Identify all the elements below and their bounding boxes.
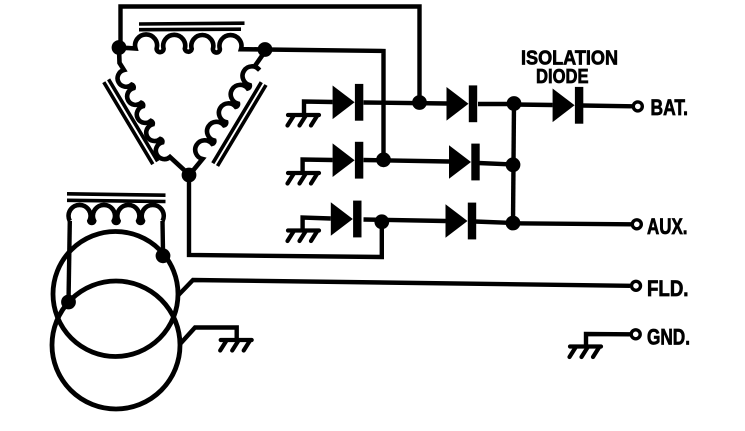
stator coil delta left side	[118, 48, 189, 175]
ground rotor	[220, 340, 252, 351]
diode D4 row 1	[447, 85, 478, 122]
junction row 2 phase B	[376, 152, 391, 167]
wire row 1 diode to diode	[364, 103, 448, 104]
diode D6 row 3	[446, 203, 477, 240]
wire FLD lead	[179, 280, 631, 295]
junction bus row 3	[506, 216, 521, 231]
core lines above delta top side	[139, 23, 245, 30]
stator coil delta top side	[119, 34, 265, 52]
junction row 3 phase C	[374, 214, 389, 229]
terminal GND	[631, 330, 640, 339]
node delta top-left vertex	[112, 40, 127, 55]
stator coil delta right side	[191, 52, 265, 174]
rotor circle upper	[53, 232, 178, 357]
diode D3 row 3	[331, 201, 362, 238]
svg-text:FLD.: FLD.	[647, 276, 689, 301]
rotor field coil	[69, 205, 164, 223]
ground row 3	[288, 231, 320, 242]
svg-text:GND.: GND.	[647, 324, 690, 349]
svg-text:BAT.: BAT.	[651, 95, 689, 120]
isolation diode	[553, 87, 584, 124]
wire top rail from delta top-left vertex to rectifier row 1	[121, 7, 420, 103]
core lines left of delta left side	[104, 79, 158, 164]
node delta top-right vertex	[258, 42, 273, 57]
ground row 1	[288, 115, 320, 126]
bus vertical joining rows	[513, 103, 514, 223]
terminal FLD	[632, 281, 641, 290]
diode D2 row 2	[333, 142, 364, 179]
wire row 2 diode to diode	[364, 160, 450, 162]
wire loop from delta bottom vertex to row 3	[189, 175, 382, 257]
wire row 2 diode to bus	[478, 163, 513, 165]
ground row 2	[288, 173, 320, 184]
core lines right of delta right side	[213, 82, 266, 166]
wire row 3 diode to diode	[364, 220, 446, 222]
wire row 1 bus to isolation diode to BAT	[514, 105, 633, 107]
node rotor left brush	[61, 295, 76, 310]
wire field coil left lead	[69, 221, 70, 302]
wire row 2 ground to diode	[303, 160, 333, 174]
wire row 3 diode to bus	[475, 222, 513, 224]
terminal AUX	[632, 220, 641, 229]
ground GND terminal	[570, 347, 602, 358]
wire field coil right lead	[160, 221, 165, 252]
diode D5 row 2	[449, 144, 480, 181]
svg-text:AUX.: AUX.	[647, 214, 688, 239]
core lines above field coil	[67, 194, 166, 202]
terminal BAT	[633, 102, 642, 111]
diode D1 row 1	[333, 84, 364, 121]
wire from delta top-right vertex down to row 2	[265, 50, 384, 160]
rotor circle lower	[52, 281, 180, 409]
junction bus row 2	[506, 157, 521, 172]
wire row 1 diode to bus	[478, 102, 514, 106]
node rotor right brush	[156, 248, 171, 263]
wire row 3 ground to diode	[303, 218, 331, 231]
wire row 1 ground to diode	[304, 102, 333, 116]
wire GND terminal lead	[586, 334, 630, 347]
svg-text:DIODE: DIODE	[536, 66, 589, 88]
node delta bottom vertex	[182, 168, 197, 183]
junction row 1 phase A	[412, 95, 427, 110]
junction bus row 1	[507, 96, 522, 111]
wire row 3 bus to AUX	[513, 223, 631, 224]
wire rotor to ground	[181, 328, 237, 344]
